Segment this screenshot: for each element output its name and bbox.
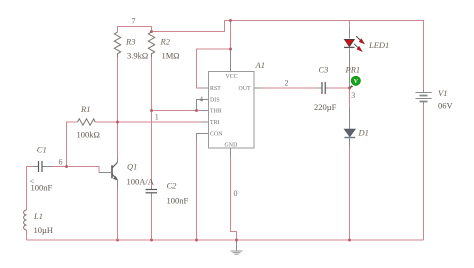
- svg-text:3: 3: [351, 91, 355, 100]
- svg-text:C2: C2: [167, 181, 178, 191]
- svg-text:2: 2: [285, 79, 289, 88]
- svg-text:Q1: Q1: [127, 162, 137, 172]
- svg-text:10µH: 10µH: [34, 225, 54, 235]
- svg-text:PR1: PR1: [345, 65, 361, 75]
- svg-text:6: 6: [59, 158, 63, 167]
- svg-text:100kΩ: 100kΩ: [77, 130, 100, 140]
- svg-text:7: 7: [132, 17, 136, 26]
- svg-text:100nF: 100nF: [167, 196, 189, 206]
- svg-text:˂: ˂: [30, 176, 35, 186]
- svg-text:TRI: TRI: [210, 120, 220, 126]
- svg-text:4: 4: [200, 95, 204, 103]
- svg-text:VCC: VCC: [226, 74, 238, 80]
- svg-text:0: 0: [234, 189, 238, 198]
- svg-text:06V: 06V: [438, 101, 454, 111]
- svg-text:OUT: OUT: [239, 86, 252, 92]
- svg-text:1MΩ: 1MΩ: [162, 51, 180, 61]
- svg-text:GND: GND: [225, 143, 238, 149]
- svg-text:D1: D1: [358, 128, 369, 138]
- svg-text:V: V: [354, 79, 359, 85]
- svg-text:1: 1: [155, 113, 159, 122]
- svg-text:100A/A: 100A/A: [127, 177, 155, 187]
- svg-text:LED1: LED1: [368, 40, 389, 50]
- svg-text:3.9kΩ: 3.9kΩ: [127, 51, 148, 61]
- svg-text:L1: L1: [33, 211, 43, 221]
- svg-text:R3: R3: [125, 37, 135, 47]
- svg-text:C3: C3: [319, 65, 329, 75]
- svg-text:A1: A1: [255, 60, 265, 70]
- svg-text:RST: RST: [210, 86, 221, 92]
- svg-text:220µF: 220µF: [314, 102, 337, 112]
- svg-text:R1: R1: [80, 104, 90, 114]
- svg-text:C1: C1: [37, 145, 47, 155]
- svg-text:THR: THR: [210, 109, 222, 115]
- svg-text:V1: V1: [438, 88, 447, 98]
- svg-text:R2: R2: [160, 37, 171, 47]
- svg-text:DIS: DIS: [210, 97, 220, 103]
- svg-text:CON: CON: [210, 132, 223, 138]
